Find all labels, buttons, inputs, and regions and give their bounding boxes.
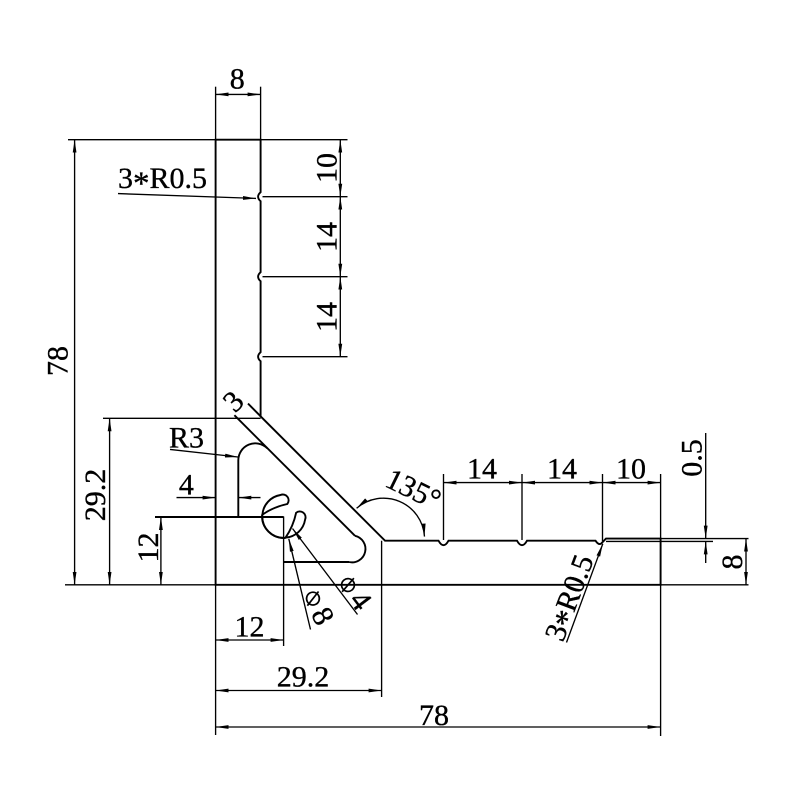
dimension 10 top arm: [603, 482, 661, 484]
dimension 10 right: [339, 140, 341, 197]
screw port lower crescent: [262, 511, 306, 537]
dimension 4: [177, 497, 216, 499]
profile outer contour: [216, 140, 661, 585]
svg-text:29.2: 29.2: [277, 661, 330, 694]
svg-text:135°: 135°: [380, 462, 446, 517]
extension line step notch: [602, 474, 604, 541]
svg-text:14: 14: [467, 453, 497, 486]
extension notch y277: [263, 276, 348, 278]
svg-text:4: 4: [343, 585, 378, 617]
extension line boss center down: [283, 517, 285, 647]
dimension 78 bottom: [216, 726, 661, 728]
extension line left edge below: [215, 585, 217, 735]
svg-text:3*R0.5: 3*R0.5: [538, 550, 607, 647]
svg-text:14: 14: [311, 302, 344, 332]
extension surface level right: [606, 540, 713, 542]
svg-text:0.5: 0.5: [675, 439, 708, 477]
svg-text:29.2: 29.2: [79, 469, 112, 522]
svg-text:8: 8: [716, 555, 749, 570]
cavity diagonal edge (slot line A): [234, 415, 355, 536]
dimension 14 right lower: [339, 277, 341, 357]
dimension 29.2 bottom: [216, 690, 382, 692]
leader 3*R0.5 top: [118, 194, 256, 199]
extension diagonal start y418: [103, 417, 261, 419]
extension bottom edge right: [661, 584, 749, 586]
dimension 12 bottom: [216, 639, 284, 641]
svg-text:R3: R3: [169, 422, 204, 455]
svg-text:10: 10: [311, 153, 344, 183]
dimension 0.5 right: [705, 433, 707, 539]
extension line notch2 top arm: [521, 474, 523, 540]
extension notch y357: [263, 356, 348, 358]
screw port upper crescent: [262, 495, 288, 539]
extension line left edge above: [215, 87, 217, 140]
svg-text:4: 4: [179, 469, 194, 502]
extension bottom edge left: [65, 584, 216, 586]
leader phi8: [289, 539, 311, 630]
extension top edge horizontal: [68, 139, 348, 141]
svg-text:10: 10: [616, 453, 646, 486]
dimension 14 right upper: [339, 197, 341, 277]
extension line corner down: [381, 541, 383, 697]
cavity top surface line y=517: [155, 516, 284, 518]
svg-text:14: 14: [311, 222, 344, 252]
extension lip top right: [661, 538, 749, 540]
extension line right end up: [660, 474, 662, 539]
svg-text:8: 8: [304, 602, 340, 630]
dimension 8 right: [745, 539, 747, 585]
extension line right arm edge above: [260, 87, 262, 140]
diagonal face overshoot: [248, 404, 261, 417]
svg-text:78: 78: [419, 699, 449, 732]
svg-text:14: 14: [547, 453, 577, 486]
cavity rounded end: [349, 536, 365, 563]
svg-text:8: 8: [230, 62, 245, 95]
svg-text:3: 3: [217, 385, 251, 419]
inner cavity left wall and R3 dome: [238, 443, 267, 517]
svg-text:12: 12: [132, 533, 165, 563]
dimension 12 left: [160, 517, 162, 585]
dimension 14 top arm first: [444, 482, 523, 484]
leader 3*R0.5 bottom: [567, 544, 603, 643]
extension line notch1 top arm: [443, 474, 445, 540]
dimension 8 top: [216, 93, 261, 95]
leader phi4: [293, 529, 358, 615]
extension notch y197: [263, 196, 348, 198]
dimension 78 left: [74, 140, 76, 585]
svg-text:78: 78: [42, 346, 75, 376]
angle dimension 135: [357, 498, 425, 536]
dimension 29.2 left: [109, 418, 111, 585]
dimension 14 top arm second: [522, 482, 603, 484]
svg-text:12: 12: [235, 611, 265, 644]
cavity floor: [284, 561, 349, 563]
leader R3: [170, 449, 238, 457]
extension line right end down: [660, 585, 662, 736]
